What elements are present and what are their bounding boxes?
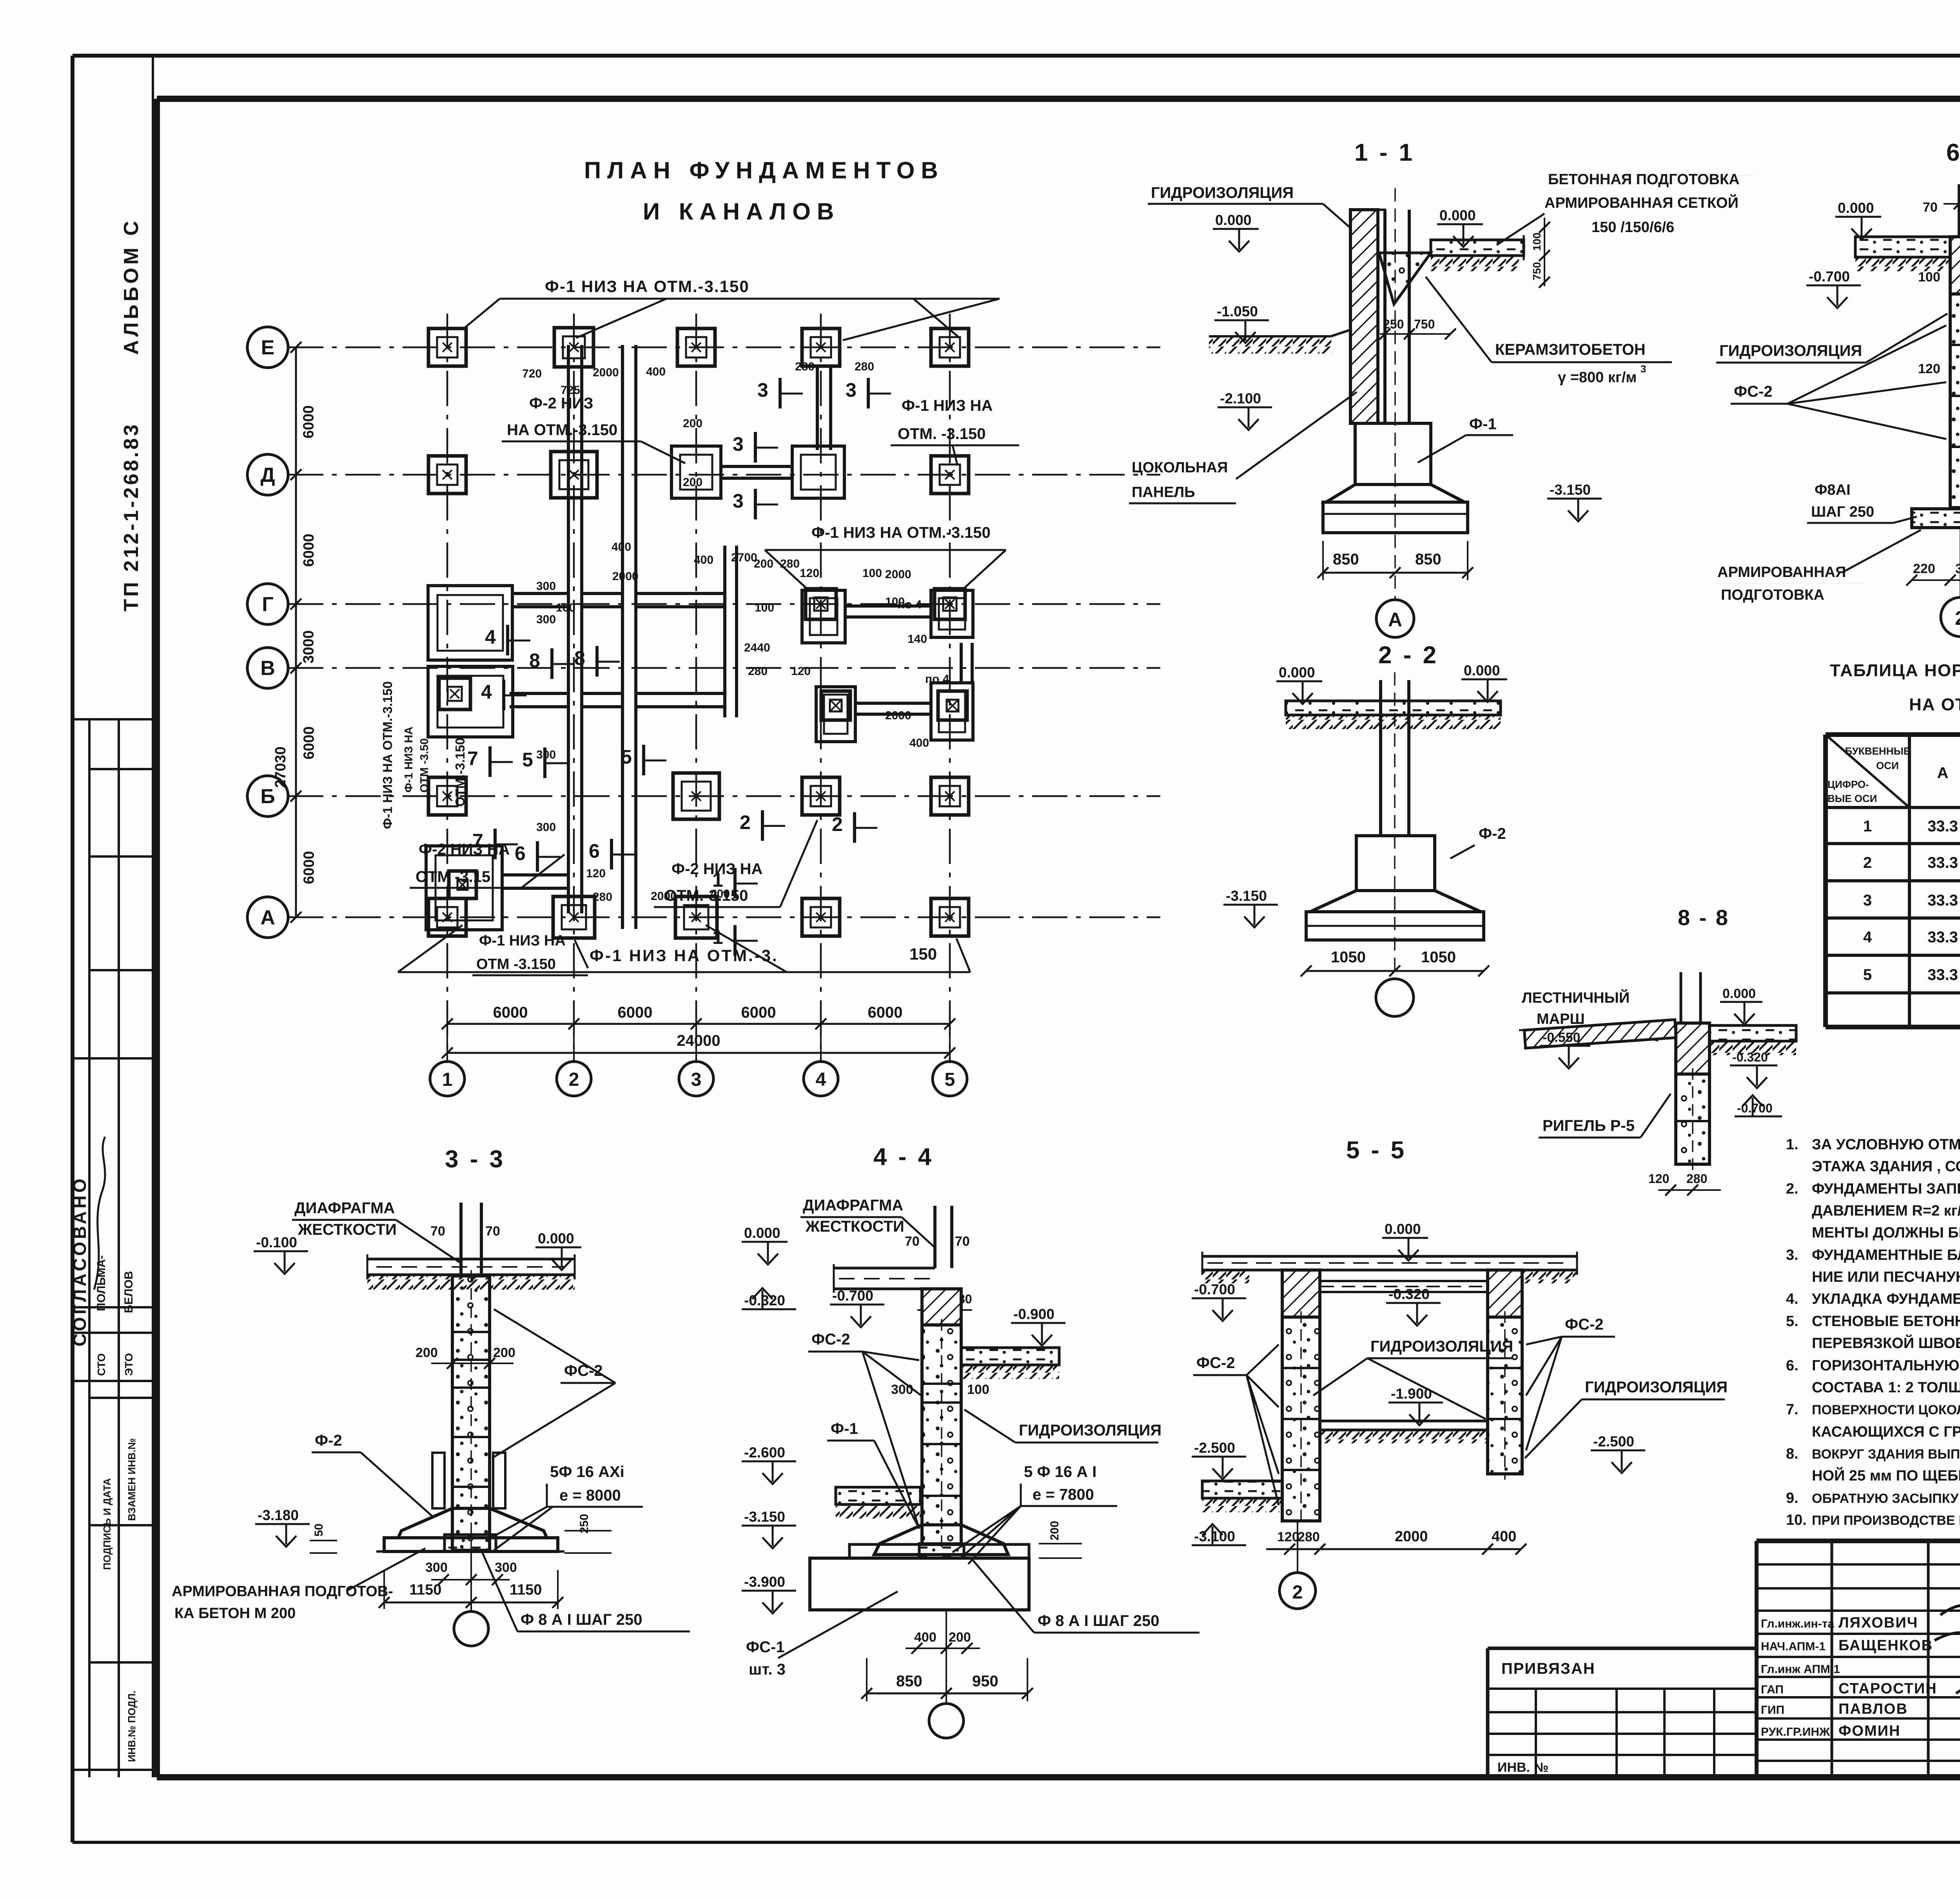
svg-text:ПОВЕРХНОСТИ ЦОКОЛЬНЫХ ПАНЕЛЕ: ПОВЕРХНОСТИ ЦОКОЛЬНЫХ ПАНЕЛЕЙ, А ТАК ЖЕ … (1812, 1402, 1960, 1417)
svg-text:СТЕНОВЫЕ БЕТОННЫЕ БЛОКИ УКЛ: СТЕНОВЫЕ БЕТОННЫЕ БЛОКИ УКЛАДЫВАТЬ НА ЦЕ… (1812, 1313, 1960, 1330)
2-2 base slab (1306, 912, 1484, 940)
svg-text:Ф-1 НИЗ НА ОТМ.-3.: Ф-1 НИЗ НА ОТМ.-3. (590, 946, 779, 965)
svg-text:0.000: 0.000 (1385, 1221, 1421, 1237)
svg-text:6000: 6000 (618, 1004, 653, 1021)
6-6 axis circle 2 (1960, 528, 1960, 597)
footing row V axis1/4/5 (439, 678, 470, 709)
svg-text:2: 2 (569, 1069, 579, 1090)
inner drawing frame (157, 96, 1960, 102)
svg-text:2000: 2000 (651, 890, 677, 903)
svg-text:ДИАФРАГМА: ДИАФРАГМА (294, 1199, 395, 1217)
svg-text:НА ОТМ.-3.150: НА ОТМ.-3.150 (507, 421, 617, 439)
svg-text:400: 400 (914, 1630, 936, 1645)
svg-text:ПОДГОТОВКА: ПОДГОТОВКА (1721, 587, 1824, 603)
svg-text:200: 200 (683, 417, 702, 430)
4-4 wall blocks (922, 1325, 961, 1544)
2-2 dims 1050 1050 (1306, 970, 1484, 972)
svg-text:МАРШ: МАРШ (1537, 1011, 1585, 1027)
svg-text:ТП 212-1-268.83: ТП 212-1-268.83 (120, 422, 143, 611)
svg-text:6000: 6000 (868, 1004, 903, 1021)
channel: horizontal run row V left (510, 692, 567, 695)
svg-text:280: 280 (855, 360, 874, 373)
svg-text:7: 7 (467, 748, 478, 769)
channel: horizontal run row B low (502, 873, 568, 876)
3-3 side forms (432, 1453, 445, 1508)
svg-text:РИГЕЛЬ Р-5: РИГЕЛЬ Р-5 (1543, 1117, 1635, 1134)
4-4 pad (919, 1544, 964, 1558)
1-1 basement panel wall (1350, 210, 1378, 423)
svg-text:ГИДРОИЗОЛЯЦИЯ: ГИДРОИЗОЛЯЦИЯ (1585, 1379, 1728, 1396)
8-8 top column (1680, 972, 1682, 1023)
2-2 flare (1310, 891, 1481, 912)
load table grid (1823, 735, 1828, 1027)
svg-text:100: 100 (755, 601, 774, 614)
svg-text:3.: 3. (1786, 1247, 1798, 1263)
svg-text:по 4: по 4 (898, 598, 922, 611)
svg-text:Б: Б (260, 785, 275, 808)
svg-text:7: 7 (472, 830, 483, 852)
svg-text:Ф-1 НИЗ НА ОТМ.-3.150: Ф-1 НИЗ НА ОТМ.-3.150 (811, 524, 991, 541)
svg-text:3: 3 (691, 1069, 702, 1090)
svg-text:70: 70 (905, 1234, 920, 1249)
svg-text:КА БЕТОН М 200: КА БЕТОН М 200 (174, 1605, 296, 1622)
svg-text:100: 100 (862, 567, 882, 580)
channel loop V axis5 (931, 683, 973, 740)
svg-text:е = 7800: е = 7800 (1033, 1486, 1094, 1503)
svg-text:100: 100 (556, 601, 575, 614)
svg-text:НОЙ 25 мм ПО ЩЕБЕНОЧНОЙ ПО: НОЙ 25 мм ПО ЩЕБЕНОЧНОЙ ПОДГОТОВКЕ h = 8… (1812, 1466, 1960, 1484)
svg-text:3: 3 (733, 490, 744, 512)
svg-text:ВЫЕ ОСИ: ВЫЕ ОСИ (1828, 793, 1877, 804)
svg-text:ПОДПИСЬ И ДАТА: ПОДПИСЬ И ДАТА (101, 1478, 113, 1570)
svg-text:шт. 3: шт. 3 (749, 1661, 786, 1678)
svg-text:1150: 1150 (409, 1582, 441, 1598)
1-1 keramzit wedge (1379, 253, 1431, 304)
plan: vertical axis dash-dot lines (446, 314, 448, 1063)
svg-text:1 - 1: 1 - 1 (1354, 139, 1415, 166)
svg-text:-0.700: -0.700 (1194, 1281, 1235, 1297)
svg-text:70: 70 (1923, 200, 1938, 215)
3-3 top column (459, 1203, 463, 1276)
svg-text:3: 3 (757, 379, 768, 401)
channel loop G axis5 (931, 590, 973, 637)
svg-text:ЖЕСТКОСТИ: ЖЕСТКОСТИ (805, 1218, 904, 1235)
svg-text:СТАРОСТИН: СТАРОСТИН (1838, 1680, 1937, 1697)
svg-text:ДАВЛЕНИЕМ R=2 кг/см² НА ГЛУ: ДАВЛЕНИЕМ R=2 кг/см² НА ГЛУБИНЕ 2 м. ПРИ… (1812, 1203, 1960, 1219)
svg-text:100: 100 (1918, 270, 1940, 285)
5-5 left wall blocks (1282, 1317, 1320, 1521)
svg-text:ФС-2: ФС-2 (811, 1331, 850, 1348)
svg-text:2.: 2. (1786, 1181, 1798, 1197)
svg-text:0.000: 0.000 (538, 1230, 574, 1247)
svg-text:ФУНДАМЕНТНЫЕ БЛОКИ УКЛАДЫВАТ: ФУНДАМЕНТНЫЕ БЛОКИ УКЛАДЫВАТЬ НА ВЫРАВНЕ… (1812, 1247, 1960, 1263)
svg-text:1050: 1050 (1421, 949, 1456, 966)
svg-text:400: 400 (646, 365, 666, 378)
svg-text:6000: 6000 (493, 1004, 528, 1021)
svg-text:5: 5 (945, 1069, 955, 1090)
bottom dimension chain (447, 1023, 950, 1025)
svg-text:300: 300 (536, 821, 556, 834)
svg-text:0.000: 0.000 (1215, 212, 1252, 228)
svg-text:ЭТАЖА ЗДАНИЯ , СООТВЕТСТВУЮЩ: ЭТАЖА ЗДАНИЯ , СООТВЕТСТВУЮЩАЯ АБСОЛЮТНО… (1812, 1157, 1960, 1175)
footing row G axis4/5 (806, 589, 836, 619)
svg-text:850: 850 (1415, 551, 1441, 568)
svg-text:6000: 6000 (301, 405, 317, 439)
svg-text:Ф-1 НИЗ НА: Ф-1 НИЗ НА (479, 933, 566, 949)
4-4 ledge slab (849, 1544, 1029, 1558)
svg-text:-2.500: -2.500 (1194, 1440, 1235, 1456)
svg-text:0.000: 0.000 (1838, 200, 1874, 216)
svg-text:3: 3 (1863, 892, 1872, 909)
6-6 wall hatched cap (1950, 237, 1960, 294)
svg-text:-3.180: -3.180 (258, 1507, 299, 1523)
svg-text:Ф-2 НИЗ: Ф-2 НИЗ (529, 395, 593, 412)
svg-text:ЗА УСЛОВНУЮ ОТМЕТКУ ±0.000: ЗА УСЛОВНУЮ ОТМЕТКУ ±0.000 ПРИНЯТА ОТМЕТ… (1812, 1136, 1960, 1153)
5-5 axis circle 2 (1297, 1521, 1298, 1572)
svg-text:БУКВЕННЫЕ: БУКВЕННЫЕ (1845, 745, 1911, 757)
signatures squiggles (1940, 1594, 1960, 1615)
svg-text:РУК.ГР.ИНЖ.: РУК.ГР.ИНЖ. (1761, 1726, 1833, 1738)
svg-text:200: 200 (1048, 1521, 1061, 1541)
svg-text:400: 400 (1492, 1528, 1516, 1545)
svg-text:Ф-1 НИЗ НА: Ф-1 НИЗ НА (902, 397, 993, 414)
svg-text:Ф-1 НИЗ НА: Ф-1 НИЗ НА (403, 726, 415, 793)
svg-text:-0.700: -0.700 (1737, 1101, 1773, 1115)
svg-text:5 Ф 16 А I: 5 Ф 16 А I (1024, 1463, 1096, 1481)
svg-text:2700: 2700 (731, 551, 757, 564)
svg-text:ВОКРУГ ЗДАНИЯ ВЫПОЛНИТЬ ОТМ: ВОКРУГ ЗДАНИЯ ВЫПОЛНИТЬ ОТМОСТКУ ШИРИНОЙ… (1812, 1446, 1960, 1462)
5-5 inner floor (1320, 1420, 1488, 1423)
svg-text:33.3: 33.3 (1927, 929, 1958, 946)
svg-text:АРМИРОВАННАЯ СЕТКОЙ: АРМИРОВАННАЯ СЕТКОЙ (1544, 194, 1739, 211)
svg-text:ОБРАТНУЮ ЗАСЫПКУ СТЕН ПОДВА: ОБРАТНУЮ ЗАСЫПКУ СТЕН ПОДВАЛА И КАНАЛОВ … (1812, 1491, 1960, 1506)
svg-text:-2.500: -2.500 (1593, 1433, 1634, 1450)
svg-text:33.3: 33.3 (1927, 892, 1958, 909)
channel dumbbell row D: connecting run (721, 465, 792, 468)
svg-text:6000: 6000 (741, 1004, 776, 1021)
column footings on grid (428, 328, 466, 366)
svg-text:4: 4 (816, 1069, 826, 1090)
svg-text:300: 300 (536, 580, 556, 593)
svg-text:-2.600: -2.600 (744, 1444, 785, 1461)
svg-text:2: 2 (1955, 607, 1960, 629)
channel loop V1 (428, 666, 513, 737)
svg-text:10.: 10. (1786, 1512, 1807, 1528)
svg-text:по 4: по 4 (925, 673, 949, 686)
svg-text:Ф-2: Ф-2 (1479, 825, 1506, 842)
svg-text:ГИДРОИЗОЛЯЦИЯ: ГИДРОИЗОЛЯЦИЯ (1370, 1338, 1513, 1355)
svg-text:ГОРИЗОНТАЛЬНУЮ ГИДРОИЗОЛЯЦИЮ: ГОРИЗОНТАЛЬНУЮ ГИДРОИЗОЛЯЦИЮ ВЫПОЛНЯТЬ И… (1812, 1357, 1960, 1374)
svg-text:33.3: 33.3 (1927, 854, 1958, 871)
svg-text:БЕТОННАЯ ПОДГОТОВКА: БЕТОННАЯ ПОДГОТОВКА (1548, 171, 1740, 188)
svg-text:ФУНДАМЕНТЫ ЗАПРОЕКТИРОВАНЫ Д: ФУНДАМЕНТЫ ЗАПРОЕКТИРОВАНЫ ДЛЯ НЕПУЧИНИС… (1812, 1181, 1960, 1197)
svg-text:АРМИРОВАННАЯ: АРМИРОВАННАЯ (1717, 564, 1846, 581)
svg-text:200: 200 (949, 1630, 971, 1645)
svg-text:120: 120 (800, 567, 819, 580)
table header diagonal (1826, 735, 1909, 807)
svg-text:Ф-1: Ф-1 (1469, 416, 1497, 433)
svg-text:1.: 1. (1786, 1136, 1798, 1153)
svg-text:5: 5 (1863, 966, 1872, 983)
svg-text:6: 6 (515, 842, 526, 864)
svg-text:4.: 4. (1786, 1291, 1798, 1307)
channel loop G axis4 (802, 590, 845, 643)
svg-text:70: 70 (955, 1234, 970, 1249)
svg-text:Ф-1 НИЗ НА ОТМ.-3.150: Ф-1 НИЗ НА ОТМ.-3.150 (545, 277, 750, 296)
svg-text:ШАГ 250: ШАГ 250 (1811, 504, 1874, 520)
4-4 base slab (810, 1558, 1029, 1610)
4-4 top column (933, 1206, 936, 1268)
channel: horizontal run row G left (512, 592, 567, 595)
left dimension chain (295, 347, 297, 917)
svg-text:Д: Д (260, 464, 275, 486)
svg-text:ГИДРОИЗОЛЯЦИЯ: ГИДРОИЗОЛЯЦИЯ (1151, 184, 1294, 201)
svg-text:-0.320: -0.320 (744, 1292, 785, 1308)
svg-text:2000: 2000 (1395, 1528, 1428, 1545)
svg-text:280: 280 (748, 665, 768, 678)
svg-text:8 - 8: 8 - 8 (1678, 905, 1730, 930)
channel dumbbell row D: left loop (671, 446, 721, 498)
channel run V axis4-5 (855, 702, 931, 705)
svg-text:ГИП: ГИП (1761, 1704, 1784, 1717)
svg-text:120: 120 (1648, 1172, 1669, 1186)
1-1 axis circle A (1376, 600, 1414, 637)
svg-text:400: 400 (612, 541, 631, 553)
svg-text:ОТМ -3.15: ОТМ -3.15 (416, 868, 490, 885)
svg-text:Ф-2: Ф-2 (315, 1432, 342, 1449)
1-1 right rotated dims (1544, 218, 1545, 286)
svg-text:4: 4 (1863, 929, 1872, 946)
svg-text:-1.050: -1.050 (1217, 303, 1258, 319)
svg-text:5: 5 (621, 746, 632, 768)
svg-text:3000: 3000 (301, 630, 317, 664)
svg-text:2: 2 (1863, 854, 1872, 871)
svg-text:400: 400 (694, 553, 713, 566)
svg-text:ИНВ. №: ИНВ. № (1497, 1760, 1548, 1775)
svg-text:50: 50 (312, 1524, 325, 1537)
svg-text:-0.900: -0.900 (1013, 1306, 1054, 1322)
6-6 footing pad (1912, 509, 1960, 528)
3-3 base slab (384, 1538, 558, 1551)
1-1 foundation flare (1326, 484, 1465, 502)
svg-text:ПАВЛОВ: ПАВЛОВ (1838, 1701, 1908, 1717)
channel loop B1 (426, 846, 502, 930)
svg-text:-3.900: -3.900 (744, 1574, 785, 1590)
5-5 left outer slab (1202, 1481, 1282, 1498)
svg-text:250: 250 (1383, 317, 1404, 331)
svg-text:6: 6 (589, 840, 600, 862)
svg-text:280: 280 (1686, 1172, 1707, 1186)
svg-text:ВЗАМЕН ИНВ.№: ВЗАМЕН ИНВ.№ (126, 1438, 138, 1521)
2-2 floor slab (1286, 701, 1501, 715)
1-1 column (1383, 210, 1387, 423)
svg-text:6000: 6000 (301, 851, 318, 884)
svg-text:е = 8000: е = 8000 (559, 1487, 621, 1504)
svg-text:120: 120 (586, 867, 606, 880)
left stamp band column lines (88, 719, 91, 1777)
title block staff columns (1831, 1541, 1833, 1777)
svg-text:ЦОКОЛЬНАЯ: ЦОКОЛЬНАЯ (1132, 459, 1228, 476)
title block outline (1757, 1539, 1960, 1543)
svg-text:33.3: 33.3 (1927, 818, 1958, 835)
svg-text:380: 380 (1955, 561, 1960, 576)
svg-text:6000: 6000 (301, 726, 318, 760)
svg-text:-3.150: -3.150 (1550, 482, 1591, 498)
svg-text:2 - 2: 2 - 2 (1378, 642, 1439, 669)
3-3 foundation flare (398, 1508, 547, 1538)
svg-text:ОТМ. -3.150: ОТМ. -3.150 (898, 425, 986, 443)
svg-text:300: 300 (425, 1560, 448, 1575)
channel: secondary vertical run (621, 345, 624, 929)
svg-text:4 - 4: 4 - 4 (873, 1143, 934, 1170)
svg-text:100: 100 (967, 1382, 989, 1397)
svg-text:8.: 8. (1786, 1446, 1798, 1462)
svg-text:3: 3 (846, 379, 857, 401)
svg-text:1150: 1150 (510, 1582, 542, 1598)
1-1 ground line left (1209, 335, 1331, 338)
svg-text:ПЛАН ФУНДАМЕНТОВ: ПЛАН ФУНДАМЕНТОВ (584, 157, 944, 183)
svg-text:А: А (260, 906, 275, 929)
3-3 axis circle (470, 1551, 472, 1612)
svg-text:-0.700: -0.700 (1809, 269, 1850, 285)
svg-text:280: 280 (1298, 1530, 1320, 1544)
4-4 left lower slab (836, 1487, 920, 1504)
2-2 block F-2 (1356, 836, 1435, 891)
svg-text:6 - 6: 6 - 6 (1946, 139, 1960, 166)
svg-text:-3.150: -3.150 (744, 1509, 785, 1525)
5-5 right wall blocks (1488, 1317, 1522, 1474)
channel loop G1 (428, 586, 512, 660)
6-6 top column (1958, 184, 1960, 237)
svg-text:ПРИ ПРОИЗВОДСТВЕ РАБОТ В З: ПРИ ПРОИЗВОДСТВЕ РАБОТ В ЗИМНЕЕ ВРЕМЯ РУ… (1812, 1513, 1960, 1528)
svg-text:ГАП: ГАП (1761, 1683, 1784, 1696)
svg-text:Ф-1: Ф-1 (831, 1420, 858, 1437)
svg-text:-0.320: -0.320 (1732, 1050, 1768, 1064)
svg-text:6.: 6. (1786, 1357, 1798, 1374)
svg-text:0.000: 0.000 (1279, 664, 1315, 680)
svg-text:2000: 2000 (593, 366, 619, 379)
svg-text:300: 300 (536, 748, 556, 761)
svg-text:БАЩЕНКОВ: БАЩЕНКОВ (1838, 1637, 1933, 1654)
svg-text:280: 280 (795, 360, 815, 373)
svg-text:7.: 7. (1786, 1401, 1798, 1418)
plan: horizontal axis dash-dot lines (288, 347, 1160, 348)
svg-text:А: А (1388, 609, 1402, 631)
8-8 floor slab right (1709, 1025, 1796, 1041)
privyazan box (1488, 1647, 1757, 1650)
svg-text:Е: Е (261, 336, 275, 359)
svg-text:ОСИ: ОСИ (1876, 760, 1899, 771)
svg-text:120: 120 (1277, 1530, 1299, 1544)
svg-text:АРМИРОВАННАЯ ПОДГОТОВ-: АРМИРОВАННАЯ ПОДГОТОВ- (172, 1583, 393, 1600)
svg-text:0.000: 0.000 (1464, 662, 1500, 679)
svg-text:300: 300 (891, 1382, 913, 1397)
svg-text:СОСТАВА 1: 2 ТОЛЩИНОЙ 20: СОСТАВА 1: 2 ТОЛЩИНОЙ 20 мм. (1812, 1378, 1960, 1396)
2-2 axis circle (1376, 979, 1414, 1016)
4-4 foundation flare (874, 1525, 1008, 1555)
svg-text:150 /150/6/6: 150 /150/6/6 (1592, 219, 1674, 236)
svg-text:ДИАФРАГМА: ДИАФРАГМА (803, 1197, 903, 1214)
svg-text:γ =800 кг/м: γ =800 кг/м (1558, 369, 1637, 386)
grid number circles (430, 1062, 465, 1096)
svg-text:ФС-2: ФС-2 (1565, 1316, 1604, 1333)
1-1 base slab (1323, 502, 1468, 533)
svg-text:120: 120 (1918, 361, 1940, 376)
svg-text:-0.320: -0.320 (1388, 1286, 1430, 1302)
footing row A (428, 898, 466, 936)
3-3 wall blocks (452, 1276, 490, 1550)
channel: main vertical run along axis 2 (567, 345, 570, 913)
svg-text:Ф 8 А I ШАГ 250: Ф 8 А I ШАГ 250 (521, 1611, 642, 1628)
svg-text:ФС-2: ФС-2 (1734, 383, 1773, 400)
svg-text:280: 280 (780, 557, 800, 570)
4-4 wall hatch cap (922, 1289, 961, 1325)
svg-text:24000: 24000 (677, 1032, 720, 1049)
4-4 floor slab left (834, 1267, 935, 1270)
5-5 top slab (1202, 1255, 1577, 1258)
svg-text:150: 150 (909, 945, 937, 963)
svg-text:280: 280 (593, 891, 612, 904)
svg-text:950: 950 (972, 1673, 998, 1690)
svg-text:140: 140 (907, 633, 927, 646)
svg-text:КАСАЮЩИХСЯ С ГРУНТОМ ПОКРЫТ: КАСАЮЩИХСЯ С ГРУНТОМ ПОКРЫТЬ БИТУМОМ ЗА … (1812, 1424, 1960, 1440)
svg-text:4: 4 (485, 626, 496, 648)
4-4 axis circle (946, 1610, 947, 1703)
8-8 wall (1676, 1023, 1710, 1074)
svg-text:400: 400 (909, 737, 929, 749)
5-5 left wall hatch cap (1282, 1270, 1320, 1317)
svg-text:ЖЕСТКОСТИ: ЖЕСТКОСТИ (298, 1221, 397, 1238)
1-1 floor slab (1431, 240, 1524, 256)
svg-text:5Ф 16 АХi: 5Ф 16 АХi (550, 1463, 624, 1481)
svg-text:НИЕ ИЛИ ПЕСЧАНУЮ ПОДУШКУ Т: НИЕ ИЛИ ПЕСЧАНУЮ ПОДУШКУ ТОЛЩИНОЙ h = 10… (1812, 1268, 1960, 1285)
svg-text:120: 120 (791, 665, 811, 678)
svg-text:ПОЛЬМА-: ПОЛЬМА- (95, 1255, 108, 1311)
svg-text:200: 200 (754, 557, 773, 570)
svg-text:8: 8 (574, 647, 585, 669)
svg-text:27030: 27030 (272, 746, 289, 788)
svg-text:ГИДРОИЗОЛЯЦИЯ: ГИДРОИЗОЛЯЦИЯ (1719, 342, 1862, 359)
6-6 floor slab left (1855, 237, 1958, 257)
3-3 center pad (445, 1535, 496, 1551)
svg-text:УКЛАДКА ФУНДАМЕНТНЫХ БЛОКОВ: УКЛАДКА ФУНДАМЕНТНЫХ БЛОКОВ НА МЕРЗЛЫЙ Г… (1812, 1290, 1960, 1307)
svg-text:-2.100: -2.100 (1220, 390, 1261, 406)
svg-text:200: 200 (493, 1345, 515, 1360)
svg-text:-3.100: -3.100 (1194, 1528, 1235, 1544)
svg-text:ФС-2: ФС-2 (1196, 1354, 1235, 1372)
svg-text:Ф 8 А I ШАГ 250: Ф 8 А I ШАГ 250 (1038, 1612, 1159, 1629)
svg-text:4: 4 (481, 681, 492, 703)
svg-text:0.000: 0.000 (744, 1225, 780, 1241)
svg-text:-0.700: -0.700 (832, 1288, 873, 1304)
5-5 inner slab dashes (1294, 1280, 1490, 1282)
svg-text:8: 8 (529, 650, 540, 671)
svg-text:300: 300 (536, 613, 556, 626)
channel right connector (960, 643, 963, 683)
channel: mid vertical connector (723, 546, 726, 717)
svg-text:1: 1 (712, 926, 723, 948)
svg-text:АЛЬБОМ С: АЛЬБОМ С (120, 218, 143, 355)
svg-text:НАЧ.АПМ-1: НАЧ.АПМ-1 (1761, 1640, 1826, 1653)
grid letter circles (247, 327, 288, 368)
channel loop V axis4 (816, 687, 855, 742)
svg-text:БЕЛОВ: БЕЛОВ (122, 1271, 135, 1313)
svg-text:2000: 2000 (885, 709, 911, 722)
4-4 right slab (961, 1348, 1059, 1365)
svg-text:2: 2 (740, 811, 751, 833)
svg-text:КЕРАМЗИТОБЕТОН: КЕРАМЗИТОБЕТОН (1495, 341, 1646, 358)
svg-text:1: 1 (442, 1069, 453, 1090)
